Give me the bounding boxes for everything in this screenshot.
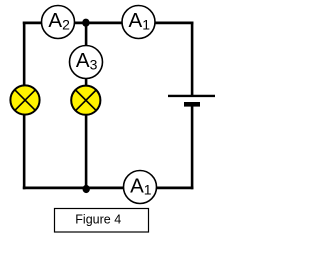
wire bottom horizontal [23, 186, 194, 189]
wire top horizontal [23, 21, 194, 24]
junction node bottom [83, 185, 90, 193]
lamp L2 [71, 86, 100, 115]
ammeter A1 top [122, 6, 155, 39]
wire right vertical upper [191, 22, 194, 96]
ammeter A2 [42, 6, 75, 39]
svg-text:Figure 4: Figure 4 [75, 212, 121, 226]
battery long plate (positive) [168, 95, 215, 97]
wire right vertical lower [191, 105, 194, 190]
lamp L1 [10, 85, 39, 114]
junction node top [82, 19, 89, 27]
wire middle vertical [85, 23, 88, 188]
figure caption box [55, 209, 149, 233]
ammeter A3 [70, 46, 103, 79]
battery short thick plate (negative) [184, 102, 200, 107]
ammeter A1 bottom [124, 171, 157, 204]
wire left vertical [23, 22, 26, 190]
